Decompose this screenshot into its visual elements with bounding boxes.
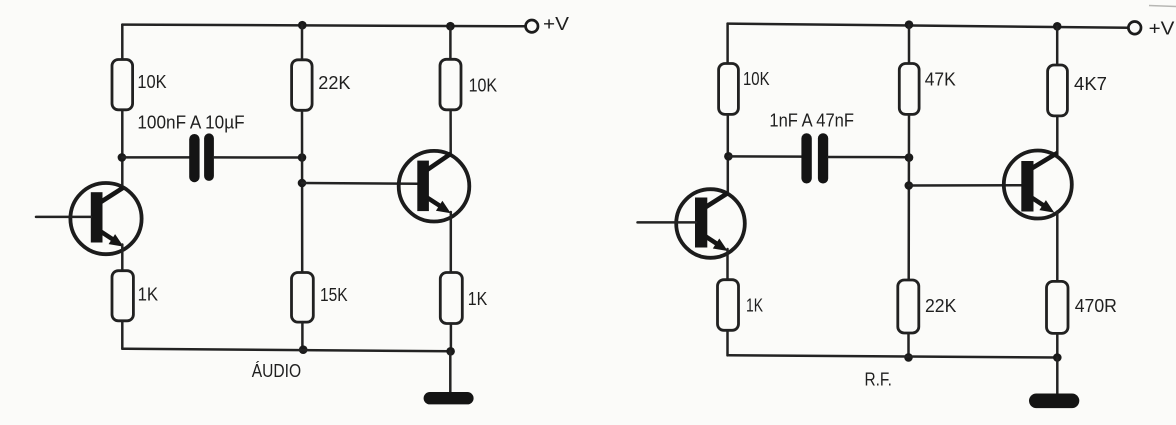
wire: Q1 base input lead — [36, 216, 91, 219]
svg-text:100nF A 10µF: 100nF A 10µF — [137, 113, 244, 133]
resistor R2 22K (audio) — [292, 60, 313, 111]
+V terminal (RF) — [1128, 22, 1141, 35]
svg-text:10K: 10K — [743, 69, 770, 89]
wire: Q2 emitter down to R6 (audio) — [450, 212, 453, 273]
wire: middle column R8 to R11 (RF) — [907, 114, 910, 280]
label R4 value 1K — [138, 285, 159, 305]
svg-text:10K: 10K — [137, 72, 166, 92]
label R.F. — [865, 369, 892, 389]
node: junction dot bottom rail / ground stem (RF) — [1053, 353, 1062, 362]
wire: left column R1 to Q1 collector (audio) — [121, 110, 124, 189]
node: junction dot top rail / right column — [446, 22, 455, 31]
wire: left column R10 to bottom rail (RF) — [726, 330, 729, 355]
resistor R3 10K (audio, Q2 collector load) — [440, 59, 461, 110]
wire: right column R6 to bottom rail (audio) — [450, 324, 453, 352]
transistor Q4 NPN (RF output stage) — [1004, 151, 1072, 219]
svg-text:10K: 10K — [469, 75, 498, 95]
wire: middle column R11 to bottom rail (RF) — [907, 333, 910, 357]
transistor Q1 NPN (audio input stage) — [70, 183, 141, 254]
svg-text:15K: 15K — [320, 285, 348, 305]
node: junction dot top rail / middle column — [298, 21, 307, 30]
wire: ground stem (audio) — [449, 351, 452, 393]
wire: right column rail to R3 (audio) — [449, 26, 452, 60]
svg-text:ÁUDIO: ÁUDIO — [252, 361, 301, 381]
ground symbol (audio) — [424, 392, 474, 404]
wire: bottom rail (RF) — [728, 355, 1058, 357]
resistor R11 22K (RF) — [898, 280, 919, 333]
label R5 value 15K — [320, 285, 348, 305]
wire: right column R9 to Q4 collector (RF) — [1056, 116, 1059, 154]
wire: Q3 base input lead (RF) — [638, 221, 697, 224]
label +V (audio) — [543, 14, 569, 34]
node: junction dot Q2 base wire — [298, 179, 307, 188]
wire: Q2 base from middle column — [302, 182, 418, 185]
label R12 value 470R — [1075, 296, 1117, 316]
node: junction dot top rail / right column (RF) — [1053, 22, 1062, 31]
wire: Q4 base from middle column (RF) — [909, 184, 1022, 187]
label R7 value 10K — [743, 69, 770, 89]
resistor R10 1K (RF, Q3 emitter) — [718, 280, 739, 331]
svg-text:R.F.: R.F. — [865, 369, 892, 389]
label R2 value 22K — [318, 73, 350, 93]
svg-text:+V: +V — [1149, 19, 1175, 39]
svg-text:47K: 47K — [925, 70, 956, 90]
node: junction dot bottom rail / middle column (RF) — [904, 353, 913, 362]
wire: ground stem (RF) — [1056, 358, 1059, 395]
node: junction dot top rail / middle column (RF) — [905, 20, 914, 29]
resistor R8 47K (RF) — [899, 64, 919, 115]
resistor R4 1K (audio, Q1 emitter) — [112, 271, 133, 321]
wire: middle column rail to R8 (RF) — [908, 25, 911, 64]
label R6 value 1K — [468, 289, 488, 309]
svg-text:470R: 470R — [1075, 296, 1117, 316]
resistor R9 4K7 (RF, Q4 collector load) — [1048, 65, 1068, 116]
svg-text:22K: 22K — [318, 73, 350, 93]
+V terminal (audio) — [526, 20, 538, 32]
wire: left column from rail to R1 (audio) — [121, 25, 124, 61]
wire: node to capacitor C1 left plate — [122, 156, 189, 159]
wire: capacitor C2 right plate to middle column (RF) — [828, 156, 909, 159]
resistor R1 10K (audio) — [112, 60, 133, 110]
capacitor C2 (1nF A 47nF) — [801, 133, 828, 183]
label R3 value 10K — [469, 75, 498, 95]
label R11 value 22K — [925, 296, 956, 316]
node: junction dot bottom rail / middle column — [299, 345, 308, 354]
wire: middle column R2 to R5 (audio) — [301, 110, 304, 272]
label R10 value 1K — [746, 295, 763, 315]
wire: +V supply rail (audio) — [122, 25, 525, 27]
svg-text:1nF A 47nF: 1nF A 47nF — [769, 111, 854, 131]
resistor R12 470R (RF, Q4 emitter) — [1047, 281, 1069, 333]
label R1 value 10K — [137, 72, 166, 92]
resistor R5 15K (audio) — [292, 273, 314, 323]
node: junction dot R7/C2/Q3 collector — [724, 152, 733, 161]
wire: Q1 emitter down to R4 (audio) — [121, 245, 124, 272]
node: junction dot C1 to R2/R5 column — [298, 153, 307, 162]
transistor Q2 NPN (audio output stage) — [399, 151, 470, 222]
label C1 value 100nF A 10uF — [137, 113, 244, 133]
svg-text:4K7: 4K7 — [1074, 74, 1107, 94]
svg-text:+V: +V — [543, 14, 569, 34]
svg-text:1K: 1K — [138, 285, 159, 305]
label AUDIO — [252, 361, 301, 381]
svg-text:1K: 1K — [746, 295, 763, 315]
ground symbol (RF) — [1029, 394, 1079, 409]
label R8 value 47K — [925, 70, 956, 90]
node: junction dot C2 to R8/R11 column — [905, 153, 914, 162]
wire: Q3 emitter down to R10 (RF) — [726, 249, 729, 280]
wire: middle column rail to R2 (audio) — [301, 25, 304, 60]
wire: right column R12 to bottom rail (RF) — [1056, 333, 1059, 357]
svg-text:1K: 1K — [468, 289, 488, 309]
label C2 value 1nF A 47nF — [769, 111, 854, 131]
resistor R6 1K (audio, Q2 emitter) — [440, 273, 462, 324]
scan artifact line top right — [1149, 6, 1176, 7]
node: junction dot bottom rail / ground stem — [446, 347, 455, 356]
transistor Q3 NPN (RF input stage) — [676, 189, 745, 258]
node: junction dot R1/C1/Q1 collector — [118, 153, 127, 162]
wire: right column rail to R9 (RF) — [1056, 26, 1059, 65]
wire: left column R4 to bottom rail (audio) — [121, 321, 124, 349]
node: junction dot Q4 base wire (RF) — [905, 181, 914, 190]
wire: left column from rail to R7 (RF) — [726, 24, 729, 64]
wire: right column R3 to Q2 collector (audio) — [449, 110, 452, 154]
wire: +V supply rail (RF) — [728, 24, 1129, 28]
capacitor C1 (100nF A 10uF) — [189, 133, 214, 182]
wire: middle column R5 to bottom rail (audio) — [301, 322, 304, 350]
wire: Q4 emitter down to R12 (RF) — [1056, 212, 1059, 282]
svg-text:22K: 22K — [925, 296, 956, 316]
wire: capacitor C1 right plate to middle column — [214, 156, 302, 159]
resistor R7 10K (RF) — [719, 64, 739, 115]
wire: node to capacitor C2 left plate (RF) — [728, 155, 801, 158]
label +V (RF) — [1149, 19, 1175, 39]
label R9 value 4K7 — [1074, 74, 1107, 94]
wire: left column R7 to Q3 collector (RF) — [727, 114, 730, 193]
wire: bottom rail (audio) — [122, 349, 451, 352]
